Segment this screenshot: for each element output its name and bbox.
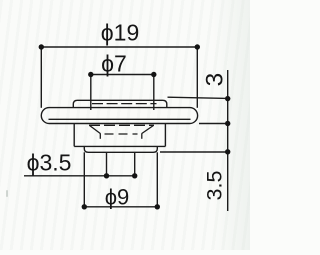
svg-text:ϕ3.5: ϕ3.5 [27,150,72,176]
svg-text:ϕ7: ϕ7 [101,51,127,77]
svg-text:3.5: 3.5 [203,171,227,201]
svg-text:ϕ19: ϕ19 [101,19,139,45]
svg-text:ϕ9: ϕ9 [105,184,130,209]
svg-text:3: 3 [202,73,229,87]
